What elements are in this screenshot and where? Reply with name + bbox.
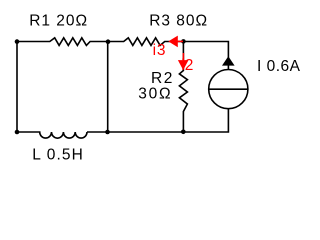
svg-text:R3 80Ω: R3 80Ω — [149, 12, 208, 29]
svg-text:i3: i3 — [153, 42, 167, 59]
svg-text:i2: i2 — [181, 57, 193, 74]
svg-text:L 0.5H: L 0.5H — [32, 146, 84, 163]
svg-text:R1 20Ω: R1 20Ω — [29, 12, 88, 29]
svg-text:R2: R2 — [151, 70, 174, 87]
svg-text:I 0.6A: I 0.6A — [257, 58, 301, 75]
svg-text:30Ω: 30Ω — [138, 86, 172, 103]
